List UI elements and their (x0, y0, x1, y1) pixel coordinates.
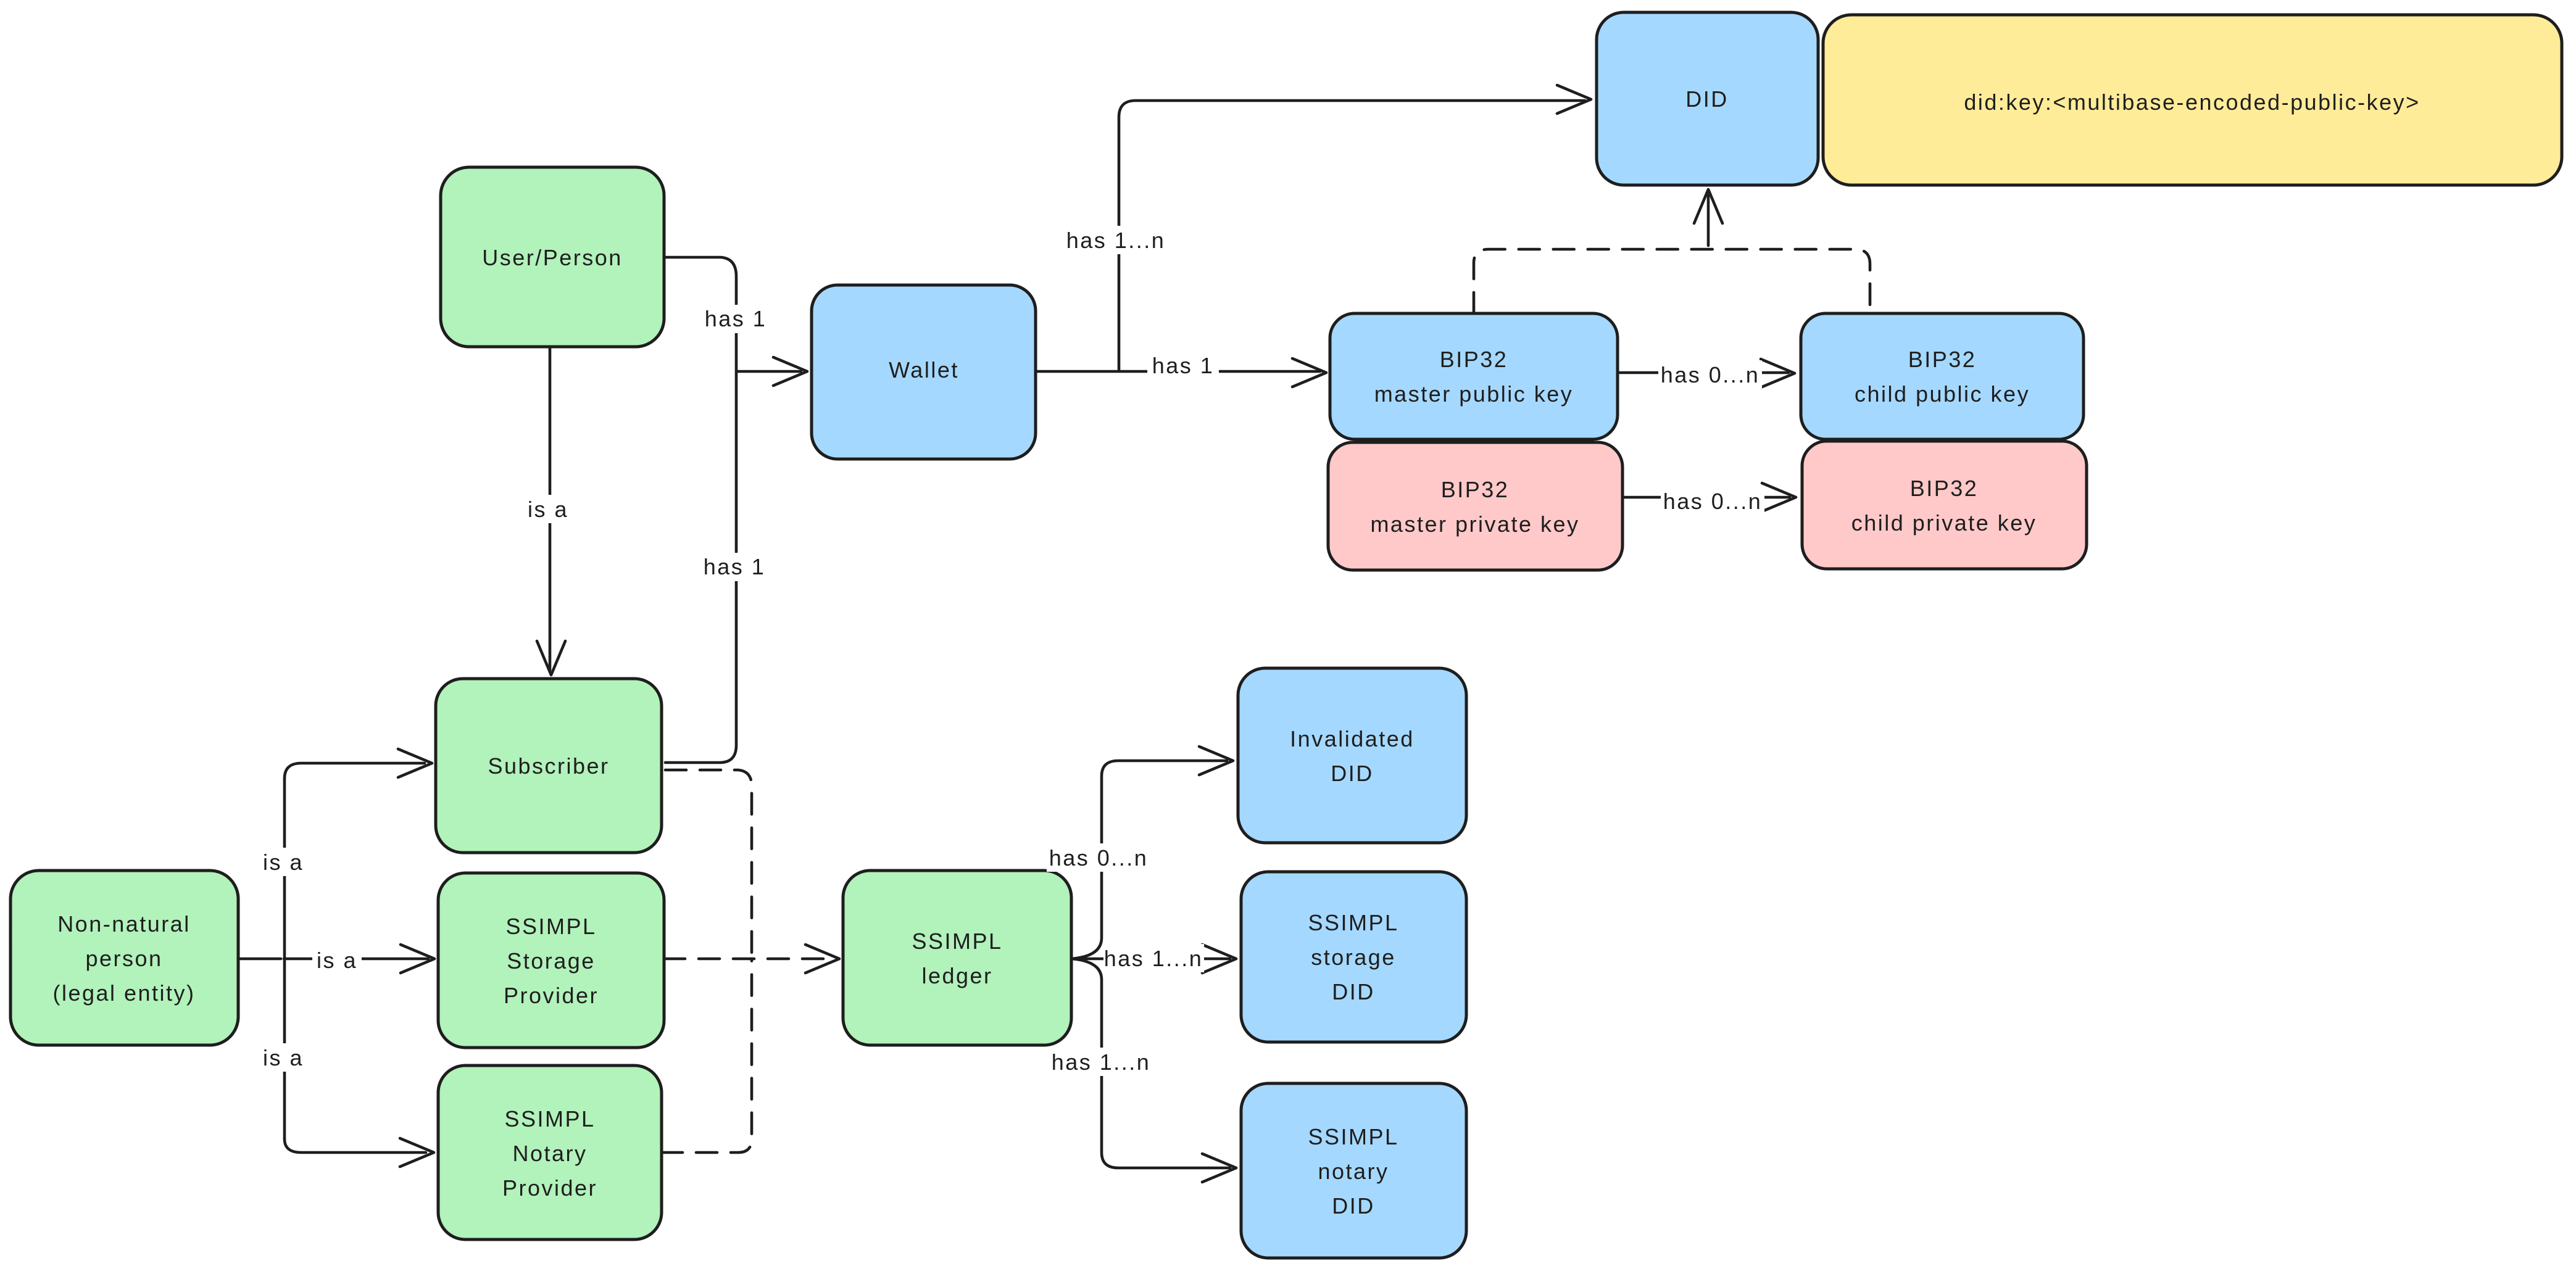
svg-text:has 1: has 1 (705, 306, 767, 331)
label is a (User/Person-Subscriber) (523, 495, 573, 523)
svg-text:is a: is a (263, 850, 304, 875)
dashed wire Notary Provider to ledger (662, 959, 752, 1152)
dashed wire Storage Provider to ledger (664, 958, 832, 961)
svg-text:Non-natural: Non-natural (57, 911, 191, 937)
svg-text:has 0...n: has 0...n (1663, 489, 1763, 514)
svg-text:did:key:<multibase-encoded-pub: did:key:<multibase-encoded-public-key> (1964, 89, 2420, 115)
wire has1n ledger to storage DID (1071, 958, 1230, 961)
svg-text:is a: is a (263, 1045, 304, 1070)
box Non-natural person (10, 871, 238, 1045)
arrowhead into notary DID (1202, 1154, 1236, 1182)
arrowhead into Subscriber left (398, 749, 432, 777)
svg-text:has 1: has 1 (1152, 353, 1215, 378)
wire is-a tree from Non-natural person (238, 763, 428, 1152)
wire has0n master private to child private (1622, 496, 1790, 499)
svg-text:Provider: Provider (504, 983, 599, 1008)
svg-text:SSIMPL: SSIMPL (504, 1106, 595, 1132)
label is a (top) (259, 848, 308, 876)
arrow up into DID bottom (1694, 189, 1722, 246)
svg-text:child private key: child private key (1851, 510, 2037, 536)
label is a (bottom) (259, 1043, 308, 1072)
svg-text:Wallet: Wallet (889, 357, 959, 383)
box SSIMPL ledger (843, 871, 1071, 1045)
svg-text:Subscriber: Subscriber (488, 753, 609, 779)
label has 0...n (master priv-child priv) (1661, 487, 1764, 515)
svg-text:has 1...n: has 1...n (1066, 228, 1166, 253)
svg-text:is a: is a (528, 497, 568, 522)
svg-text:has 0...n: has 0...n (1049, 845, 1149, 871)
arrowhead into DID left (1557, 85, 1591, 114)
arrowhead into child public key (1761, 359, 1795, 387)
box DID (1597, 12, 1818, 185)
arrowhead into SSIMPL ledger (805, 945, 839, 973)
box BIP32 child private key (1802, 441, 2087, 569)
svg-text:DID: DID (1332, 1193, 1375, 1218)
box BIP32 child public key (1801, 313, 2084, 439)
box User/Person (441, 167, 664, 347)
svg-text:master public key: master public key (1374, 381, 1574, 407)
arrowhead into child private key (1762, 483, 1796, 511)
wire is-a User/Person to Subscriber (549, 347, 552, 670)
svg-text:has 1: has 1 (704, 554, 766, 579)
arrowhead into Invalidated DID (1199, 747, 1233, 775)
arrowhead into SSIMPL Notary Provider left (400, 1138, 434, 1167)
wire has1n Wallet to DID (1119, 101, 1585, 370)
box SSIMPL notary DID (1241, 1083, 1466, 1258)
box BIP32 master public key (1330, 313, 1618, 439)
arrowhead into SSIMPL Storage Provider left (401, 945, 434, 973)
label has 1 (Subscriber-Wallet) (699, 553, 770, 581)
svg-text:ledger: ledger (921, 963, 992, 988)
svg-text:BIP32: BIP32 (1441, 477, 1510, 502)
svg-text:Notary: Notary (512, 1141, 587, 1166)
svg-text:has 1...n: has 1...n (1052, 1049, 1151, 1075)
label has 1 (User/Person-Wallet) (700, 305, 772, 333)
svg-text:SSIMPL: SSIMPL (1308, 910, 1398, 935)
label is a (middle) (312, 946, 362, 974)
arrowhead into Wallet (773, 357, 807, 386)
svg-text:child public key: child public key (1855, 381, 2030, 407)
wire has1 Wallet to BIP32 master public key (1037, 370, 1320, 373)
wire has0n master public to child public (1618, 371, 1789, 374)
svg-text:SSIMPL: SSIMPL (912, 929, 1002, 954)
box Invalidated DID (1238, 668, 1466, 843)
wire has0n ledger to Invalidated DID (1071, 761, 1227, 959)
svg-text:User/Person: User/Person (482, 245, 623, 270)
wire has1n ledger to notary DID (1071, 959, 1230, 1168)
svg-text:person: person (85, 946, 162, 971)
dashed wire Subscriber to ledger (665, 770, 752, 959)
svg-text:Invalidated: Invalidated (1290, 726, 1415, 751)
svg-text:(legal entity): (legal entity) (52, 980, 195, 1006)
box BIP32 master private key (1328, 442, 1622, 570)
svg-text:BIP32: BIP32 (1910, 476, 1979, 501)
arrowhead into Subscriber top (537, 641, 565, 675)
svg-text:storage: storage (1311, 945, 1396, 970)
svg-text:Storage: Storage (507, 948, 596, 974)
svg-text:notary: notary (1318, 1159, 1389, 1184)
box Wallet (812, 285, 1036, 459)
svg-text:has 1...n: has 1...n (1104, 946, 1203, 971)
box SSIMPL Storage Provider (438, 873, 664, 1048)
svg-text:has 0...n: has 0...n (1661, 362, 1760, 387)
label has 1 (Wallet-BIP32) (1147, 351, 1219, 379)
wire has1 User/Person+Subscriber to Wallet vertical trunk (664, 257, 801, 763)
svg-text:BIP32: BIP32 (1908, 347, 1977, 372)
dashed wire BIP32 keys to DID (1474, 249, 1870, 318)
svg-text:DID: DID (1331, 761, 1374, 786)
svg-text:BIP32: BIP32 (1440, 347, 1508, 372)
arrowhead into storage DID (1202, 945, 1236, 973)
box SSIMPL Notary Provider (438, 1065, 662, 1239)
svg-text:DID: DID (1332, 979, 1375, 1004)
label has 1...n (ledger-notary DID) (1051, 1048, 1152, 1076)
svg-text:master private key: master private key (1370, 511, 1579, 537)
arrowhead into BIP32 master public key (1292, 358, 1326, 387)
label has 0...n (ledger-Invalidated DID) (1047, 843, 1150, 872)
svg-text:SSIMPL: SSIMPL (505, 914, 596, 939)
svg-text:Provider: Provider (502, 1175, 597, 1201)
box did:key yellow note (1823, 15, 2562, 185)
label has 1...n (ledger-storage DID) (1103, 944, 1204, 972)
box Subscriber (436, 679, 662, 853)
svg-text:SSIMPL: SSIMPL (1308, 1124, 1398, 1149)
box SSIMPL storage DID (1241, 872, 1466, 1042)
label has 0...n (master pub-child pub) (1658, 360, 1762, 389)
svg-text:is a: is a (317, 948, 357, 973)
svg-text:DID: DID (1685, 86, 1729, 112)
label has 1...n (Wallet-DID) (1066, 226, 1166, 254)
